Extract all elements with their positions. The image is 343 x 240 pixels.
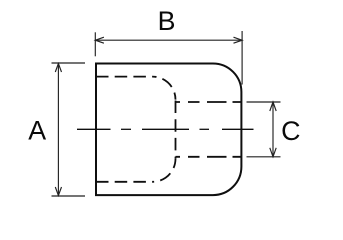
hidden counterbore bottom line (dashed) (96, 181, 153, 183)
dimension C (right hole dia) (247, 102, 281, 157)
dimension line (95, 39, 242, 41)
arrow up (270, 102, 276, 111)
dimension A (left height) (52, 63, 86, 196)
centerline (dash-dot) (77, 128, 254, 130)
arrow down (55, 187, 61, 196)
extension line right (241, 31, 243, 85)
dimension B (top width) (95, 31, 242, 85)
arrow left (95, 37, 104, 43)
extension line left (94, 32, 96, 56)
hidden counterbore bottom-end arc (dashed) (153, 159, 176, 182)
svg-text:C: C (281, 116, 300, 146)
dimension line (272, 102, 274, 157)
arrow right (234, 37, 243, 43)
hidden hole line upper (dashed) (176, 101, 242, 103)
extension line top (52, 62, 86, 64)
extension line top (247, 101, 281, 103)
hidden counterbore top-end arc (dashed) (153, 77, 176, 100)
hidden counterbore end face (vertical dashed) (175, 100, 177, 159)
extension line bottom (247, 156, 281, 158)
extension line bottom (52, 195, 86, 197)
svg-text:B: B (158, 6, 176, 36)
dimension line (57, 64, 59, 196)
arrow down (270, 148, 276, 157)
arrow up (55, 64, 61, 73)
part outline (cap body with domed right end) (96, 64, 241, 196)
hidden hole line lower (dashed) (176, 156, 242, 158)
svg-text:A: A (28, 116, 46, 146)
hidden counterbore top line (dashed) (96, 76, 153, 78)
